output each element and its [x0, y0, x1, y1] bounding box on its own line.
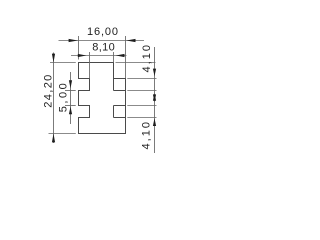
- svg-text:4,10: 4,10: [140, 122, 152, 150]
- svg-text:24,20: 24,20: [43, 75, 55, 108]
- svg-text:16,00: 16,00: [87, 26, 118, 38]
- svg-text:5,00: 5,00: [57, 83, 69, 112]
- svg-text:8,10: 8,10: [92, 42, 115, 54]
- svg-text:4,10: 4,10: [141, 45, 153, 73]
